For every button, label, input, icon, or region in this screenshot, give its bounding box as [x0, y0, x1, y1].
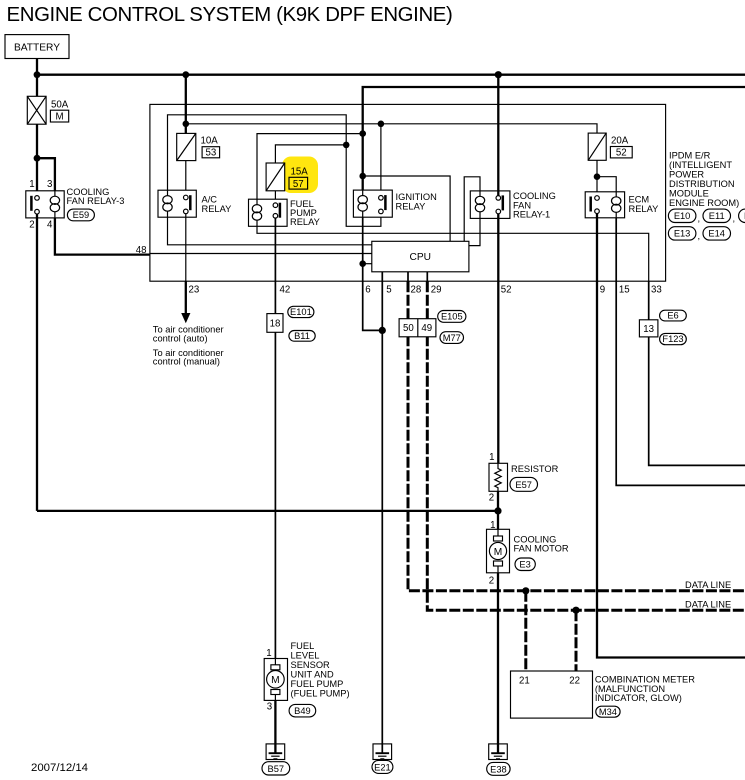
- ground E38: [489, 744, 508, 760]
- wire CPU pin 29 stub: [426, 272, 428, 281]
- svg-text:15: 15: [619, 284, 630, 295]
- wire fuel pump relay coil to long net pin 33: [257, 226, 649, 281]
- svg-text:DATA LINE: DATA LINE: [685, 600, 731, 610]
- svg-text:control (auto): control (auto): [153, 334, 208, 344]
- wire bus tap down to 10A fuse: [185, 75, 187, 134]
- wire pin 33 continue to right: [649, 337, 745, 466]
- svg-text:FUEL PUMP: FUEL PUMP: [291, 679, 344, 689]
- wire ECM coil to pin 15: [616, 218, 745, 486]
- connector E12 partial: [739, 209, 745, 222]
- svg-text:FAN RELAY-3: FAN RELAY-3: [67, 196, 125, 206]
- svg-text:E38: E38: [490, 765, 507, 775]
- svg-text:52: 52: [616, 148, 627, 159]
- svg-text:E13: E13: [674, 229, 691, 239]
- svg-text:15A: 15A: [291, 167, 309, 178]
- svg-text:48: 48: [136, 245, 147, 256]
- wire relay-1 contact to pin 52: [497, 214, 499, 281]
- wire feed to cooling fan motor: [37, 510, 498, 512]
- wire bus to fuse 50A: [36, 75, 38, 97]
- label 57 box: [289, 177, 308, 190]
- svg-text:5: 5: [386, 284, 391, 295]
- wire feed to fuel pump relay coil: [257, 134, 363, 200]
- wire CPU pin 28 stub: [407, 272, 409, 281]
- connector E14: [703, 227, 731, 240]
- svg-text:,: ,: [698, 231, 701, 241]
- wire dashed CPU pin 29 data line: [427, 281, 745, 610]
- fuse 20A: [588, 133, 606, 160]
- svg-text:,: ,: [733, 214, 736, 224]
- svg-text:CPU: CPU: [410, 252, 432, 263]
- connector E105: [438, 311, 466, 323]
- svg-text:29: 29: [431, 284, 442, 295]
- svg-text:IPDM E/R: IPDM E/R: [669, 150, 711, 160]
- wire 48 inside IPDM to CPU: [150, 253, 372, 255]
- wire to ground E21: [381, 330, 383, 744]
- node ignition relay contact feed: [378, 121, 385, 128]
- svg-text:(INTELLIGENT: (INTELLIGENT: [669, 160, 732, 170]
- svg-text:A/C: A/C: [202, 195, 218, 205]
- wire junction to ECM coil: [597, 177, 616, 192]
- wire battery stub: [36, 59, 38, 75]
- node join pins 5 and 6: [379, 327, 386, 334]
- arrowhead: [181, 313, 190, 323]
- svg-text:33: 33: [651, 284, 662, 295]
- svg-text:RESISTOR: RESISTOR: [511, 464, 559, 474]
- wire pin 42 to fuel pump: [274, 332, 276, 658]
- svg-text:M: M: [494, 547, 503, 558]
- svg-text:50: 50: [403, 323, 414, 334]
- connector F123: [660, 333, 687, 344]
- battery B1: [5, 35, 69, 59]
- svg-text:,: ,: [698, 214, 701, 224]
- wire junction to ECM contact: [596, 177, 598, 196]
- wire dashed to meter pin 21: [524, 591, 527, 671]
- svg-text:3: 3: [47, 179, 52, 190]
- wire pin 33 down to connector 13: [648, 281, 650, 320]
- connector box 13 on pin 33 wire: [639, 320, 658, 337]
- svg-text:1: 1: [29, 179, 34, 190]
- motor M2 FUEL LEVEL SENSOR UNIT AND FUEL PUMP: [264, 659, 287, 701]
- connector E38: [487, 762, 510, 775]
- CPU U1: [372, 241, 469, 271]
- svg-text:IGNITION: IGNITION: [396, 192, 437, 202]
- svg-text:E101: E101: [290, 307, 312, 317]
- fuse 50A (fusible link): [27, 96, 46, 124]
- fuse 15A: [266, 163, 285, 191]
- svg-text:MODULE: MODULE: [669, 188, 709, 198]
- svg-text:3: 3: [267, 702, 272, 713]
- node cooling fan relay-3 feed: [34, 155, 41, 162]
- relay K4 IGNITION RELAY: [353, 190, 392, 217]
- svg-text:1: 1: [266, 648, 271, 659]
- wire dashed to meter pin 22: [575, 610, 578, 671]
- resistor R1: [489, 463, 508, 491]
- wire A/C relay contact to pin 23: [185, 214, 187, 282]
- svg-text:RELAY: RELAY: [629, 204, 659, 214]
- svg-text:2007/12/14: 2007/12/14: [31, 762, 88, 774]
- wire tap to CPU left: [363, 263, 372, 265]
- wire A/C relay coil to CPU: [168, 217, 372, 245]
- svg-text:20A: 20A: [611, 135, 629, 146]
- svg-text:6: 6: [365, 284, 370, 295]
- connector B57: [262, 762, 290, 775]
- svg-text:E3: E3: [519, 560, 530, 570]
- svg-text:M77: M77: [443, 333, 461, 343]
- node data line 2 branch: [572, 607, 579, 614]
- svg-text:28: 28: [411, 284, 422, 295]
- svg-text:53: 53: [206, 148, 217, 159]
- combination meter box: [511, 671, 593, 718]
- node motor feed junction: [494, 507, 501, 514]
- svg-text:E10: E10: [674, 211, 691, 221]
- connector E59: [67, 209, 94, 221]
- svg-text:M34: M34: [599, 707, 617, 717]
- ground B57: [266, 744, 285, 760]
- node CPU pin 6 tap: [359, 260, 366, 267]
- svg-text:(FUEL PUMP): (FUEL PUMP): [291, 688, 350, 698]
- relay K6 ECM RELAY: [585, 192, 624, 218]
- node ignition output branch: [343, 142, 350, 149]
- wire net 10A-tap to 20A fuse: [186, 124, 597, 133]
- connector box 18 on pin 42 wire: [267, 314, 283, 333]
- svg-text:E11: E11: [709, 211, 725, 221]
- svg-text:RELAY-1: RELAY-1: [513, 210, 550, 220]
- svg-text:2: 2: [489, 575, 494, 586]
- svg-text:INDICATOR, GLOW): INDICATOR, GLOW): [595, 693, 682, 703]
- wire junction to relay-3 coil pin 3: [37, 158, 55, 191]
- svg-text:B11: B11: [294, 331, 310, 341]
- wire pin 52 to resistor: [497, 281, 499, 463]
- svg-text:50A: 50A: [51, 100, 69, 111]
- svg-text:23: 23: [189, 284, 200, 295]
- wire 10A fuse to A/C relay contact: [185, 161, 187, 196]
- svg-text:E6: E6: [667, 311, 678, 321]
- svg-text:E57: E57: [515, 480, 532, 490]
- wire battery bus: [37, 74, 745, 76]
- label COMBINATION METER: [595, 675, 695, 704]
- wire ignition coil to pin 6: [363, 217, 383, 330]
- IPDM E/R outer box: [150, 104, 666, 281]
- connector boxes 50 and 49: [399, 319, 436, 337]
- label IPDM E/R block: [669, 150, 739, 208]
- connector E11: [703, 209, 731, 222]
- node bus tap 10A: [182, 71, 189, 78]
- svg-text:E14: E14: [708, 229, 725, 239]
- connector E21: [372, 760, 393, 773]
- connector B11: [289, 331, 315, 342]
- wire bus to relay-1 contact: [497, 75, 499, 196]
- svg-text:M: M: [55, 112, 63, 123]
- svg-text:F123: F123: [662, 334, 683, 344]
- svg-text:52: 52: [501, 284, 512, 295]
- motor M1 COOLING FAN MOTOR: [487, 529, 510, 573]
- connector M77: [440, 332, 464, 344]
- svg-text:POWER: POWER: [669, 169, 704, 179]
- connector B49: [289, 704, 316, 717]
- node bus tap relay-1: [495, 71, 502, 78]
- connector E10: [668, 209, 696, 222]
- svg-text:LEVEL: LEVEL: [291, 651, 320, 661]
- label 53 box: [202, 147, 220, 159]
- svg-text:1: 1: [489, 452, 494, 463]
- wire tap to CPU top: [363, 176, 450, 241]
- wire junction to relay-3 contact pin 1: [36, 158, 38, 195]
- node ignition coil feed tap: [359, 173, 366, 180]
- wire pin 23 arrow to air conditioner: [185, 281, 187, 314]
- svg-text:E21: E21: [374, 763, 391, 773]
- ground E21: [373, 744, 392, 760]
- svg-text:BATTERY: BATTERY: [14, 42, 60, 53]
- relay K3 FUEL PUMP RELAY: [249, 199, 288, 226]
- svg-text:M: M: [271, 675, 280, 686]
- relay K2 A/C RELAY: [158, 190, 196, 217]
- relay K5 COOLING FAN RELAY-1: [470, 191, 510, 219]
- svg-text:49: 49: [421, 323, 432, 334]
- svg-text:13: 13: [643, 324, 654, 335]
- relay K1 COOLING FAN RELAY-3: [26, 191, 64, 218]
- node fuel pump relay coil feed: [359, 130, 366, 137]
- node 10A feed tap: [183, 121, 190, 128]
- wire ignition switched net to A/C coil and 15A fuse: [168, 115, 381, 227]
- fuse 10A: [177, 133, 196, 160]
- svg-text:57: 57: [293, 179, 304, 190]
- wire ECM contact to pin 9: [597, 214, 745, 658]
- svg-text:22: 22: [569, 675, 580, 686]
- svg-text:2: 2: [489, 492, 494, 503]
- wire relay-3 pin 4 to IPDM pin 48: [55, 218, 150, 255]
- wire relay-3 contact pin 2 down: [36, 214, 38, 511]
- node battery bus left: [34, 71, 41, 78]
- svg-text:E59: E59: [73, 210, 90, 220]
- svg-text:18: 18: [270, 319, 281, 330]
- svg-text:control (manual): control (manual): [153, 357, 220, 367]
- node data line 1 branch: [522, 587, 529, 594]
- svg-text:RELAY: RELAY: [396, 202, 426, 212]
- svg-text:9: 9: [600, 284, 605, 295]
- wire motor to ground E38: [497, 573, 499, 744]
- label FUEL LEVEL SENSOR UNIT AND FUEL PUMP: [291, 641, 350, 698]
- svg-text:E105: E105: [441, 312, 463, 322]
- label 52 box: [610, 147, 632, 159]
- wire fuse 15A to fuel pump relay contact: [274, 191, 276, 203]
- wire 20A fuse to junction: [596, 160, 598, 176]
- connector E101: [288, 306, 314, 317]
- svg-text:4: 4: [47, 220, 53, 231]
- svg-text:RELAY: RELAY: [202, 204, 232, 214]
- wire sensor to ground B57: [274, 700, 276, 744]
- wire fuel pump relay contact to pin 42: [274, 218, 276, 314]
- svg-text:ECM: ECM: [629, 195, 650, 205]
- svg-text:2: 2: [29, 220, 34, 231]
- svg-text:DATA LINE: DATA LINE: [685, 580, 731, 590]
- svg-text:ENGINE ROOM): ENGINE ROOM): [669, 198, 739, 208]
- wire fuse 50A to junction: [36, 124, 38, 158]
- svg-text:FAN MOTOR: FAN MOTOR: [514, 544, 569, 554]
- connector E13: [668, 227, 696, 240]
- highlight on fuse 15A label: [282, 157, 318, 194]
- connector E57: [510, 477, 538, 491]
- svg-text:B49: B49: [294, 706, 311, 716]
- connector E6: [660, 310, 687, 321]
- wire branch to fuse 15A: [275, 145, 346, 163]
- svg-text:RELAY: RELAY: [290, 217, 320, 227]
- svg-text:DISTRIBUTION: DISTRIBUTION: [669, 179, 735, 189]
- wire relay-1 coil top to CPU: [464, 177, 480, 242]
- wire to ignition relay contact: [380, 124, 382, 196]
- svg-text:10A: 10A: [201, 136, 219, 147]
- connector M34: [596, 706, 620, 717]
- wire relay-1 coil bottom to CPU right: [469, 218, 480, 245]
- connector E3: [515, 558, 535, 571]
- wire dashed CPU pin 28 data line: [408, 281, 745, 591]
- svg-text:ENGINE CONTROL SYSTEM (K9K DPF: ENGINE CONTROL SYSTEM (K9K DPF ENGINE): [7, 4, 453, 26]
- wire CPU pin 5: [381, 272, 383, 331]
- svg-text:B57: B57: [268, 764, 285, 774]
- label M box: [50, 110, 68, 122]
- node ECM relay feed: [594, 173, 601, 180]
- wire battery feed 2: [363, 87, 745, 190]
- svg-text:21: 21: [519, 675, 530, 686]
- wire resistor to motor: [497, 491, 499, 529]
- svg-text:42: 42: [280, 284, 291, 295]
